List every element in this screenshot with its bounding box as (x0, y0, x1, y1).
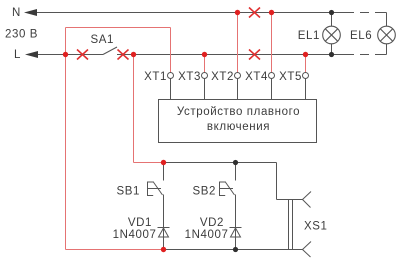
svg-text:VD2: VD2 (200, 217, 224, 229)
svg-text:SA1: SA1 (91, 34, 115, 46)
svg-text:XT5: XT5 (279, 71, 302, 83)
svg-text:включения: включения (207, 121, 270, 133)
svg-text:N: N (12, 7, 21, 19)
svg-text:1N4007: 1N4007 (113, 229, 157, 241)
svg-text:1N4007: 1N4007 (185, 229, 229, 241)
svg-text:SB2: SB2 (192, 186, 216, 198)
svg-text:VD1: VD1 (128, 217, 152, 229)
svg-text:EL6: EL6 (350, 30, 372, 42)
svg-text:XT4: XT4 (245, 71, 268, 83)
svg-text:XT2: XT2 (211, 71, 234, 83)
svg-text:XT1: XT1 (144, 71, 167, 83)
svg-text:L: L (14, 49, 21, 61)
svg-text:230 В: 230 В (5, 29, 38, 41)
svg-text:XT3: XT3 (178, 71, 201, 83)
svg-text:XS1: XS1 (304, 221, 328, 233)
svg-text:SB1: SB1 (116, 186, 140, 198)
svg-text:EL1: EL1 (298, 30, 320, 42)
svg-text:Устройство плавного: Устройство плавного (177, 106, 300, 118)
